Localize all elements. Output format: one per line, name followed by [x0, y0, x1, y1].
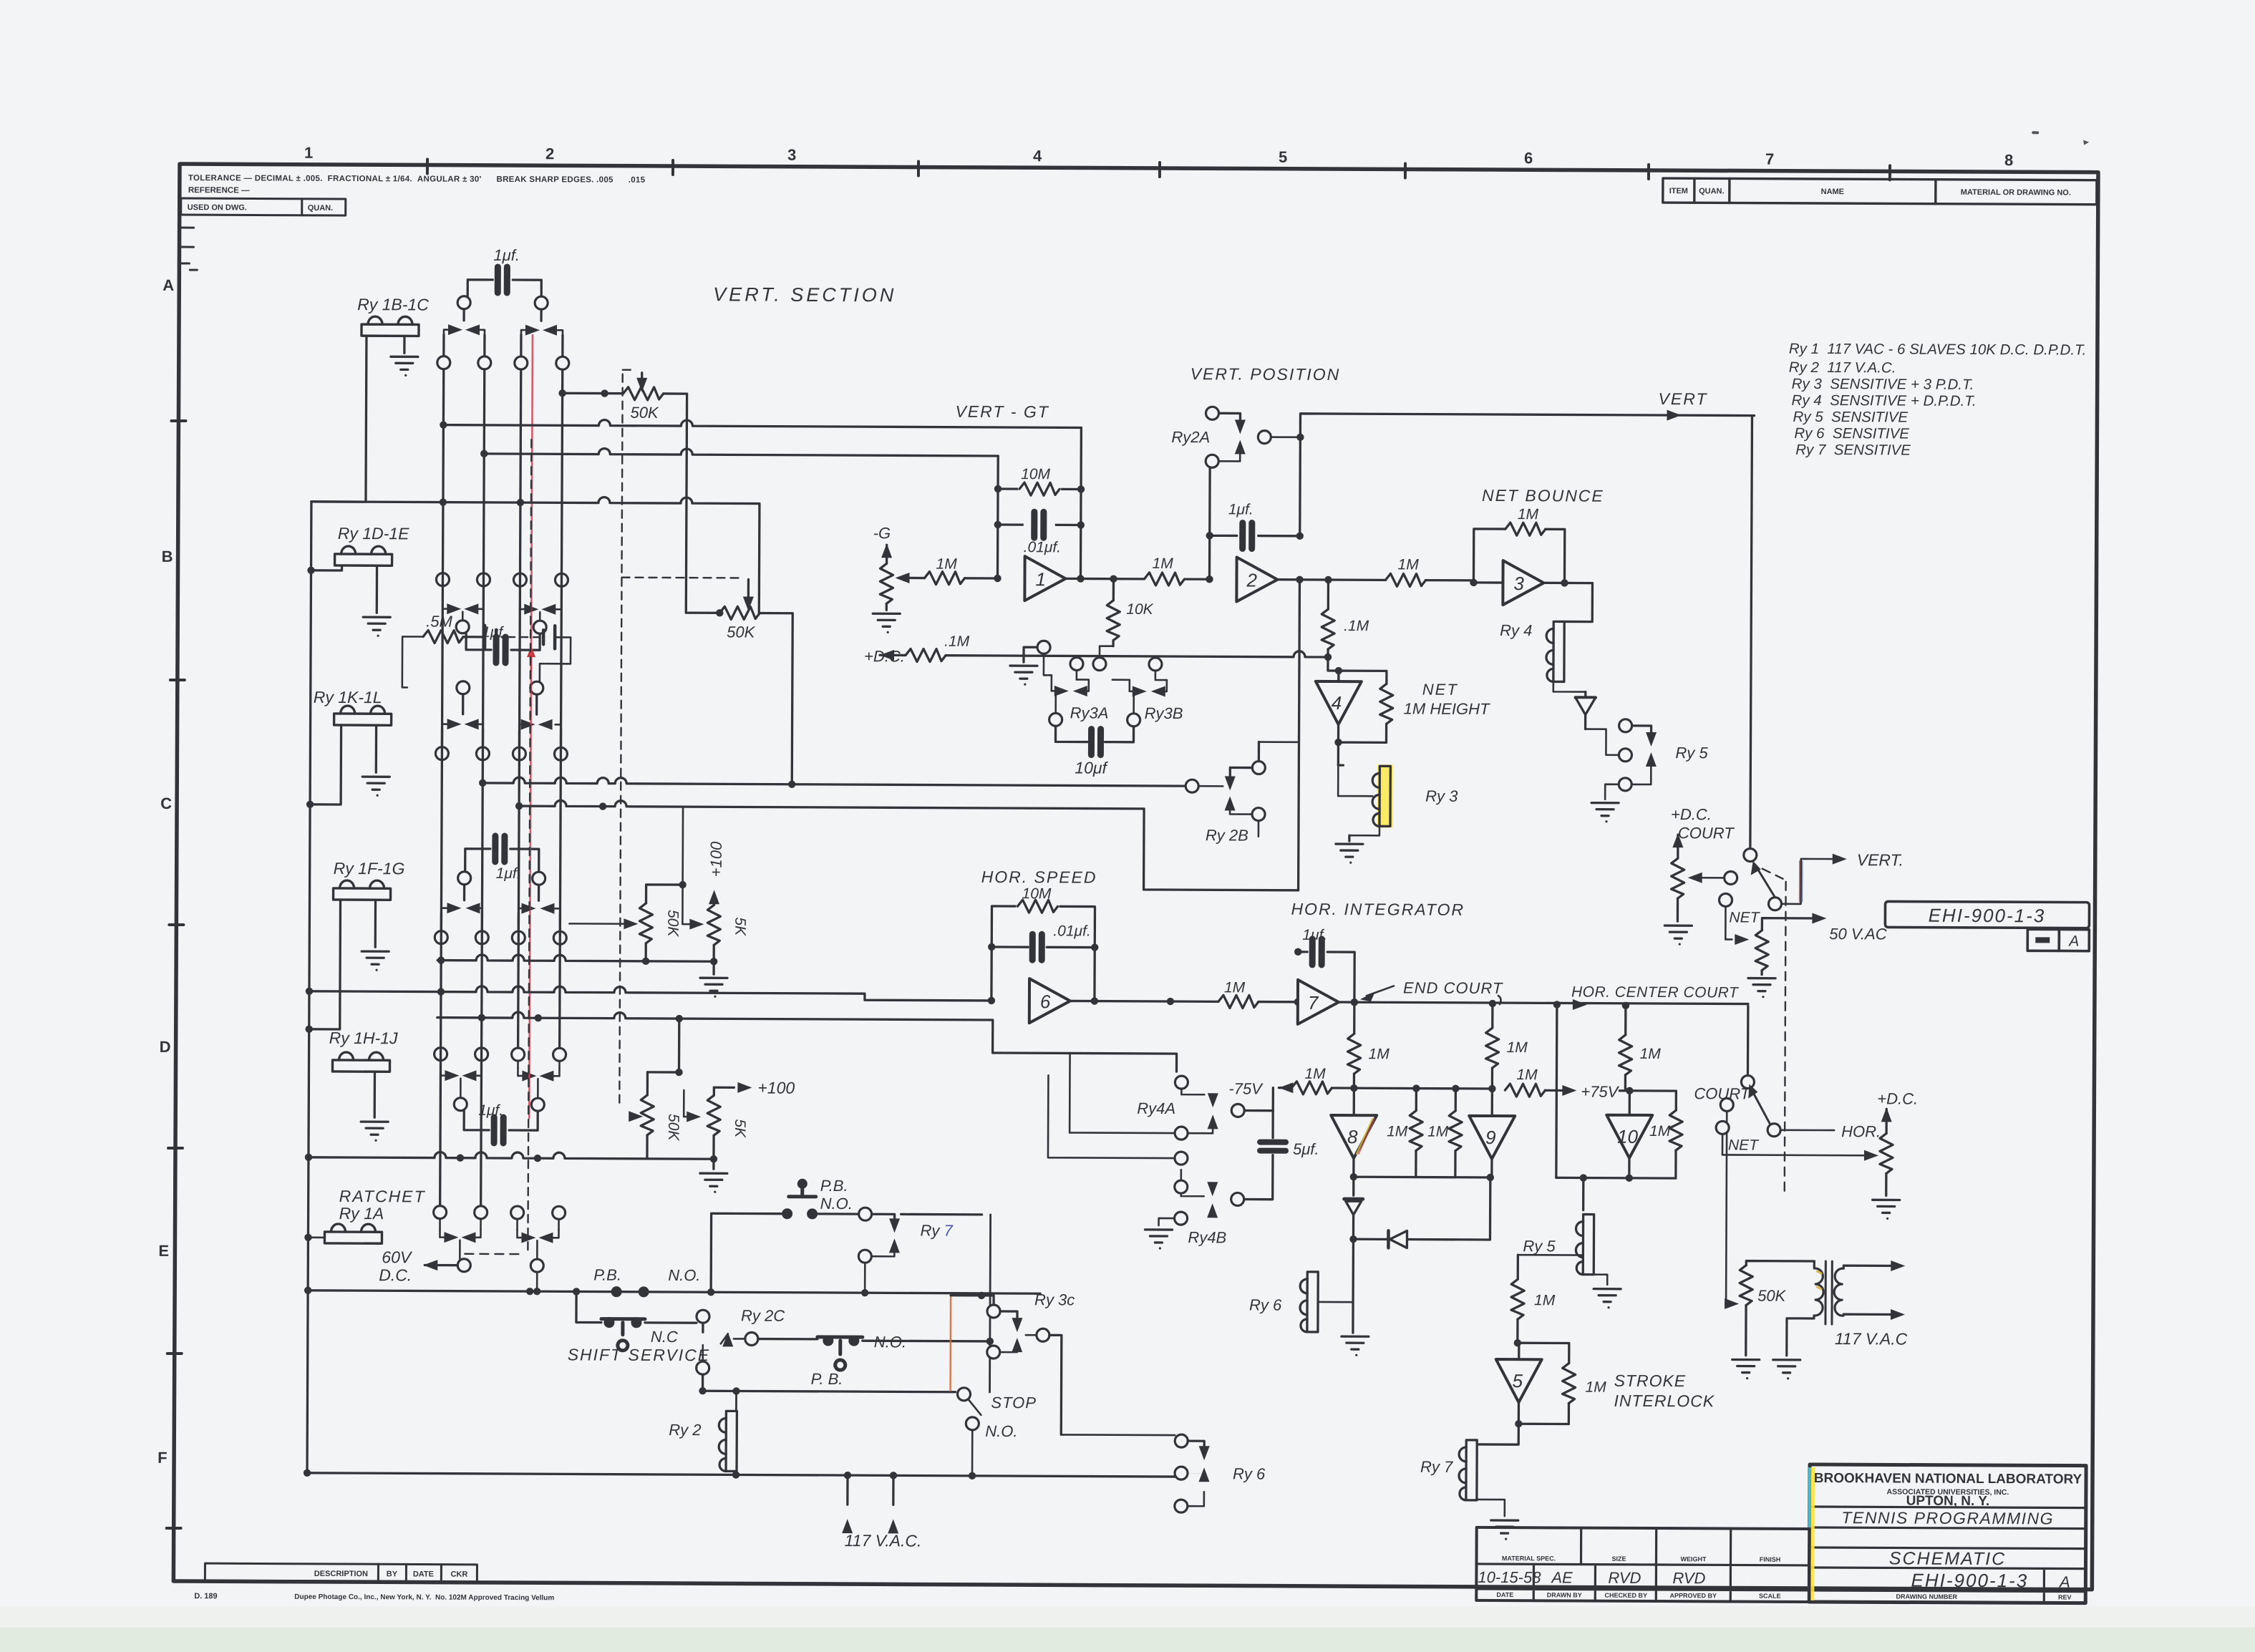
END COURT annotation — [1360, 978, 1503, 1004]
wire bus y1802 — [304, 1287, 1040, 1298]
svg-text:Ry4A: Ry4A — [1137, 1099, 1175, 1117]
svg-text:117 V.A.C: 117 V.A.C — [1835, 1329, 1908, 1348]
contact Ry1A upper terminals — [434, 1206, 566, 1220]
svg-text:10M: 10M — [1021, 466, 1050, 482]
svg-text:F: F — [157, 1449, 168, 1467]
+D.C. label (hor pot) — [1877, 1089, 1918, 1133]
svg-text:P.B.: P.B. — [593, 1266, 621, 1284]
resistor 1M (-75V) — [1291, 1066, 1495, 1095]
potentiometer 50K (vert section upper) — [623, 387, 687, 422]
junction y1420 — [478, 1014, 542, 1022]
+100 arrow (pair 2) — [714, 1078, 795, 1097]
svg-text:C: C — [160, 795, 172, 812]
contact Ry1D — [442, 586, 483, 621]
svg-text:Ry 2: Ry 2 — [669, 1421, 701, 1439]
potentiometer 5K (pair 2) — [684, 1087, 748, 1159]
VERT arrow annotation — [1658, 389, 1707, 421]
resistor 10M (op1 feedback) — [1018, 466, 1061, 495]
switch blade (VERT select) — [1750, 850, 1904, 911]
svg-text:10-15-58: 10-15-58 — [1478, 1568, 1541, 1586]
switch STOP — [957, 1388, 1037, 1480]
red pencil trace (stop row) — [949, 1296, 951, 1391]
svg-text:.5M: .5M — [426, 613, 452, 631]
junction y632/colB — [480, 450, 488, 457]
resistor 1M (op3 feedback) — [1473, 523, 1564, 583]
svg-text:5K: 5K — [732, 917, 748, 936]
svg-text:1M: 1M — [1649, 1123, 1671, 1140]
svg-text:Ry 3: Ry 3 — [1425, 787, 1458, 805]
svg-text:Ry 1K-1L: Ry 1K-1L — [314, 688, 382, 706]
potentiometer 5K (pair 1) — [682, 807, 749, 961]
svg-text:N.O.: N.O. — [668, 1266, 700, 1284]
svg-text:UPTON, N. Y.: UPTON, N. Y. — [1906, 1494, 1990, 1510]
junction y700 — [440, 498, 524, 506]
wire bus y1384 — [309, 986, 991, 1001]
junction bus/Ry1D-1E — [307, 566, 341, 574]
terminal mid (Ry4A/B) — [1048, 1075, 1188, 1165]
wire PB NO row — [707, 1213, 859, 1296]
svg-text:Ry 6 SENSITIVE: Ry 6 SENSITIVE — [1794, 425, 1909, 442]
relay coil Ry1K-1L — [334, 706, 392, 797]
svg-text:8: 8 — [2004, 151, 2013, 169]
svg-text:SIZE: SIZE — [1611, 1555, 1626, 1563]
dashed gang link (vert switch) — [1761, 869, 1786, 1195]
red pencil trace column — [529, 335, 533, 1118]
svg-text:SCHEMATIC: SCHEMATIC — [1889, 1548, 2006, 1569]
svg-text:1M: 1M — [1516, 1066, 1538, 1083]
switch COURT second terminal — [1720, 1098, 1733, 1303]
contact Ry3A — [1044, 653, 1109, 721]
capacitor 1uf (Ry1D-1E) — [456, 621, 546, 664]
svg-text:B: B — [162, 548, 173, 565]
svg-text:BROOKHAVEN NATIONAL LABORATORY: BROOKHAVEN NATIONAL LABORATORY — [1814, 1471, 2082, 1487]
svg-text:1M HEIGHT: 1M HEIGHT — [1404, 699, 1490, 718]
junction y1616 — [305, 1154, 541, 1162]
svg-text:VERT. SECTION: VERT. SECTION — [713, 283, 896, 306]
svg-text:117 V.A.C.: 117 V.A.C. — [845, 1531, 922, 1550]
svg-text:VERT. POSITION: VERT. POSITION — [1190, 364, 1341, 384]
svg-text:Dupee Photage Co., Inc., New Y: Dupee Photage Co., Inc., New York, N. Y.… — [294, 1593, 554, 1603]
svg-text:50K: 50K — [1757, 1287, 1787, 1305]
svg-text:1μf.: 1μf. — [496, 865, 521, 882]
svg-text:1M: 1M — [1427, 1124, 1449, 1140]
diode (Ry4 to Ry5) — [1576, 692, 1596, 729]
svg-text:.1M: .1M — [1344, 618, 1369, 634]
switch blade (HOR select) — [1748, 1084, 1881, 1141]
op6 feedback box rails — [988, 906, 1099, 1005]
dashed gang link to second 50K — [621, 578, 754, 611]
junction bus/Ry1K-1L — [306, 725, 341, 808]
svg-text:Ry3A: Ry3A — [1070, 704, 1109, 721]
relay coil Ry4 (slave) — [1500, 621, 1586, 692]
op-amp 7 — [1298, 980, 1339, 1024]
wire 10K into contact — [1100, 646, 1113, 658]
wire bus y1092 — [479, 777, 1185, 790]
labels NET / 1M HEIGHT — [1404, 680, 1491, 718]
svg-text:BY: BY — [387, 1570, 398, 1578]
relay coil Ry1A (ratchet) — [308, 1224, 382, 1243]
used-on-dwg box — [181, 198, 346, 215]
capacitor 10uf — [1055, 726, 1133, 777]
svg-text:1M: 1M — [1369, 1046, 1390, 1062]
resistor 1M (op5 parallel) — [1517, 1343, 1606, 1424]
svg-text:1: 1 — [1035, 568, 1046, 590]
svg-text:1M: 1M — [936, 556, 958, 573]
svg-text:3: 3 — [1513, 573, 1524, 594]
contact Ry1H-1J upper terminals — [435, 1048, 566, 1061]
svg-text:Ry 4: Ry 4 — [1500, 621, 1532, 639]
svg-text:5K: 5K — [732, 1119, 748, 1138]
svg-text:N.O.: N.O. — [820, 1195, 853, 1213]
wire bus y700 — [311, 496, 760, 613]
svg-text:Ry 2B: Ry 2B — [1206, 826, 1248, 844]
contact Ry1F-1G upper terminals — [458, 872, 545, 885]
svg-text:VERT: VERT — [1659, 389, 1708, 408]
potentiometer at op1 input — [880, 563, 909, 610]
potentiometer +DC COURT — [1671, 833, 1737, 921]
wire op8 bottom rail — [1350, 1158, 1495, 1196]
wire Ry5 coil to stroke resistor — [1518, 1254, 1583, 1256]
diode (op9 cross) — [1353, 1177, 1490, 1248]
wire pots pair1 bottom — [437, 955, 717, 966]
svg-text:+D.C.: +D.C. — [1671, 805, 1712, 823]
svg-text:P. B.: P. B. — [811, 1370, 843, 1388]
svg-text:50K: 50K — [727, 623, 756, 641]
svg-text:INTERLOCK: INTERLOCK — [1614, 1391, 1715, 1411]
wire bus y547 to 50K — [558, 389, 623, 397]
svg-text:5: 5 — [1513, 1370, 1523, 1391]
wire Ry7 contact to bus — [861, 1289, 868, 1296]
title block left extension strip — [1476, 1527, 1809, 1602]
wire Ry2C lower to stop row — [699, 1374, 955, 1396]
contact Ry1K — [442, 694, 482, 747]
contact Ry1H — [440, 1061, 481, 1099]
+100 arrow (pair 1) — [707, 841, 724, 905]
wire op4 bottom — [1334, 724, 1386, 747]
svg-text:1M: 1M — [1387, 1123, 1408, 1140]
resistor 1M (op10 parallel) — [1629, 1091, 1683, 1178]
svg-text:.1M: .1M — [944, 633, 970, 650]
wire op2 output — [1277, 575, 1385, 583]
resistor 1M (op4 parallel) — [1334, 667, 1393, 743]
contact Ry1B — [444, 309, 485, 363]
svg-text:.01μf.: .01μf. — [1053, 923, 1090, 939]
svg-text:MATERIAL SPEC.: MATERIAL SPEC. — [1502, 1555, 1556, 1562]
wire bus y1124 — [515, 800, 1299, 890]
svg-text:END COURT: END COURT — [1403, 978, 1503, 997]
svg-text:60V: 60V — [382, 1248, 413, 1266]
svg-text:2: 2 — [545, 145, 554, 162]
resistor 1M (op6-op7) — [1218, 979, 1301, 1009]
ground below Ry7 — [1491, 1520, 1518, 1540]
wire bus y1420 — [437, 1012, 1176, 1072]
contact Ry5 terminals — [1619, 719, 1631, 791]
contact Ry1K-1L lower terminals — [435, 747, 567, 761]
svg-text:1M: 1M — [1586, 1379, 1607, 1396]
bus stub to Ry1B-1C coil — [311, 336, 367, 502]
resistor 1M (center court load 1) — [1485, 1004, 1528, 1089]
sheet border frame — [173, 164, 2098, 1590]
wire Ry3c leads — [950, 1292, 1062, 1435]
-75V label with arrow — [1228, 1079, 1293, 1097]
resistor .1M (to +DC) — [906, 633, 1332, 664]
svg-text:Ry 6: Ry 6 — [1249, 1296, 1282, 1314]
svg-text:7: 7 — [1765, 150, 1774, 168]
contact Ry1F — [441, 885, 482, 931]
contact Ry3c — [987, 1291, 1075, 1359]
contact Ry7 (control) — [858, 1208, 982, 1293]
contact Ry5 — [1585, 726, 1708, 785]
svg-text:RVD: RVD — [1672, 1569, 1705, 1587]
svg-text:CKR: CKR — [450, 1570, 467, 1579]
svg-text:10: 10 — [1617, 1126, 1639, 1147]
label +D.C. COURT — [1671, 805, 1735, 842]
ground below NET pot — [1748, 978, 1775, 999]
svg-text:-75V: -75V — [1228, 1079, 1264, 1097]
svg-text:Ry 4 SENSITIVE + D.P.D.T.: Ry 4 SENSITIVE + D.P.D.T. — [1792, 392, 1977, 409]
op-amp 4 — [1316, 657, 1362, 724]
push button P.B. N.O. (Ry2C) — [811, 1333, 907, 1389]
dashed gang link left — [528, 439, 531, 1250]
top border zone ticks — [427, 160, 1890, 180]
wire op3 output to Ry4 — [1566, 583, 1592, 621]
relay coil Ry1F-1G — [333, 880, 391, 971]
relay coil Ry3 (slave) — [1338, 742, 1459, 836]
resistor 1M (stroke) — [1511, 1255, 1556, 1346]
svg-text:Ry 1B-1C: Ry 1B-1C — [357, 295, 429, 314]
ground below 5K pair1 — [700, 961, 727, 998]
ground below HOR pot — [1873, 1200, 1900, 1220]
relay list note — [1788, 341, 2086, 460]
terminal Ry1A lower — [530, 1259, 543, 1291]
svg-text:DESCRIPTION: DESCRIPTION — [314, 1570, 368, 1578]
contact Ry1J — [518, 1061, 559, 1099]
ground below +DC COURT pot — [1664, 925, 1692, 946]
NET terminal lower — [1716, 1121, 1878, 1160]
svg-text:RATCHET: RATCHET — [339, 1187, 426, 1206]
op-amp 3 — [1473, 560, 1592, 606]
switch VERT/50VAC common terminal — [1744, 416, 1759, 862]
svg-text:Ry 3c: Ry 3c — [1034, 1291, 1075, 1308]
svg-text:A: A — [2058, 1573, 2070, 1590]
svg-text:Ry 5 SENSITIVE: Ry 5 SENSITIVE — [1793, 409, 1908, 426]
svg-text:D: D — [160, 1038, 171, 1056]
wire bus y1616 — [309, 1152, 714, 1159]
capacitor .01uf (op6 feedback) — [1032, 923, 1091, 960]
potentiometer 50K (pair 1) — [569, 880, 687, 961]
op-amp 5 — [1495, 1343, 1541, 1402]
capacitor 5uf — [1244, 1111, 1319, 1200]
wire Ry2C to PB row — [758, 1214, 994, 1392]
svg-text:HOR.: HOR. — [1841, 1122, 1881, 1140]
relay coil Ry5 (slave) — [1576, 1174, 1608, 1284]
svg-text:Ry 1F-1G: Ry 1F-1G — [334, 859, 405, 878]
wire center court drop — [1556, 1004, 1557, 1177]
svg-text:DATE: DATE — [1496, 1591, 1513, 1598]
contact Ry1A-2 — [517, 1219, 558, 1259]
diode (op8 output) — [1344, 1199, 1362, 1243]
svg-text:Ry4B: Ry4B — [1188, 1228, 1226, 1246]
svg-text:1M: 1M — [1398, 556, 1420, 573]
op-amp 9 — [1469, 1089, 1515, 1159]
junction bus/Ry1F-1G — [306, 900, 341, 1033]
resistor 1M (op8 parallel) — [1387, 1088, 1423, 1177]
mechanical link dashed (Ry1A) — [465, 1253, 524, 1255]
svg-text:EHI-900-1-3: EHI-900-1-3 — [1911, 1570, 2029, 1592]
svg-text:Ry3B: Ry3B — [1145, 704, 1183, 722]
relay coil Ry7 (slave) — [1420, 1424, 1519, 1517]
svg-text:1μf.: 1μf. — [1228, 501, 1253, 518]
relay coil Ry1H-1J — [332, 1052, 390, 1142]
capacitor 1uf (Ry1H-1J) — [454, 1098, 544, 1144]
contact Ry1G — [518, 885, 560, 931]
ground below Ry5 coil — [1594, 1289, 1621, 1309]
contact Ry1D-1E upper terminals — [436, 573, 568, 587]
wire op1 output — [1065, 575, 1144, 583]
svg-text:10M: 10M — [1022, 885, 1052, 902]
svg-text:1M: 1M — [1640, 1046, 1662, 1062]
svg-text:RVD: RVD — [1608, 1569, 1641, 1587]
svg-text:Ry 5: Ry 5 — [1675, 744, 1708, 762]
terminals below Ry3A/3B — [1049, 713, 1140, 727]
capacitor 1uf (Ry1F-1G) — [465, 836, 539, 882]
svg-text:1: 1 — [304, 144, 313, 162]
resistor 1M (op2-op3) — [1385, 556, 1477, 587]
contact Ry1K-1L upper terminals — [457, 681, 543, 695]
svg-text:HOR. INTEGRATOR: HOR. INTEGRATOR — [1291, 900, 1465, 919]
svg-text:50K: 50K — [665, 1114, 682, 1141]
svg-text:E: E — [158, 1242, 169, 1260]
svg-text:COURT: COURT — [1678, 824, 1735, 842]
shift service N.C. contact — [601, 1317, 678, 1351]
resistor 1M (op1-op2) — [1144, 555, 1213, 586]
dashed gang link upper — [619, 370, 647, 1104]
wire column D — [560, 369, 563, 1048]
resistor 10K to ground — [1107, 579, 1154, 646]
resistor 1M (op1 input) — [909, 555, 997, 585]
potentiometer HOR +DC — [1880, 1133, 1893, 1195]
60V D.C. label with arrow — [379, 1248, 470, 1285]
ground below transformer — [1773, 1360, 1800, 1380]
svg-text:DRAWN BY: DRAWN BY — [1547, 1591, 1582, 1598]
contact Ry1A-1 — [440, 1219, 480, 1259]
contact Ry4A — [1137, 1076, 1273, 1140]
svg-text:REFERENCE —: REFERENCE — — [188, 186, 250, 195]
svg-text:Ry 1H-1J: Ry 1H-1J — [329, 1029, 398, 1047]
svg-text:+100: +100 — [757, 1079, 795, 1097]
svg-text:FINISH: FINISH — [1760, 1556, 1781, 1563]
svg-text:.01μf.: .01μf. — [1024, 539, 1061, 555]
svg-text:A: A — [2067, 933, 2079, 950]
NET terminal upper — [1719, 893, 1760, 945]
svg-text:5μf.: 5μf. — [1293, 1140, 1319, 1158]
potentiometer 50K (second) — [685, 606, 792, 784]
svg-text:P.B.: P.B. — [820, 1177, 848, 1195]
resistor 1M (center court load 2) — [1619, 1006, 1661, 1091]
item/name header strip — [1663, 178, 2097, 205]
svg-text:-G: -G — [873, 524, 891, 542]
svg-text:6: 6 — [1524, 149, 1533, 167]
op-amp 10 — [1606, 1091, 1653, 1178]
svg-text:TENNIS PROGRAMMING: TENNIS PROGRAMMING — [1841, 1508, 2054, 1527]
capacitor 1uf (op7 feedback) — [1294, 927, 1359, 1006]
wire op2 output down rail — [1299, 580, 1300, 890]
potentiometer NET (upper) — [1755, 913, 1887, 975]
contact Ry4B — [1158, 1180, 1266, 1247]
op-amp 8 — [1331, 1088, 1377, 1158]
svg-text:SCALE: SCALE — [1759, 1593, 1781, 1600]
svg-text:N.O.: N.O. — [985, 1422, 1017, 1440]
resistor 1M (op9 parallel) — [1427, 1089, 1463, 1177]
svg-text:1M: 1M — [1534, 1292, 1556, 1308]
svg-text:4: 4 — [1033, 147, 1042, 165]
contact Ry1E — [520, 586, 561, 621]
transformer T1 — [1787, 1260, 1906, 1356]
pen speck marks — [2032, 131, 2089, 145]
contact Ry3B — [1112, 658, 1183, 722]
svg-text:Ry 2C: Ry 2C — [741, 1306, 785, 1324]
scanner bed green strip at bottom — [0, 1628, 2255, 1652]
svg-text:DATE: DATE — [413, 1570, 434, 1578]
svg-text:Ry 1 117 VAC - 6 SLAVES 10K D: Ry 1 117 VAC - 6 SLAVES 10K D.C. D.P.D.T… — [1789, 341, 2087, 359]
relay contact Ry2A — [1171, 407, 1300, 468]
junction y1384 — [306, 988, 445, 996]
svg-text:DRAWING NUMBER: DRAWING NUMBER — [1896, 1593, 1958, 1600]
wire -75V node up — [1272, 1088, 1274, 1111]
ground + contact cluster Ry3A/3B ground — [1010, 641, 1050, 686]
svg-text:AE: AE — [1550, 1568, 1573, 1586]
resistor .5M with delay caps (Ry1K-1L) — [402, 612, 571, 688]
EHI-900-1-3 reference box mid right — [1885, 901, 2089, 951]
svg-text:VERT.: VERT. — [1857, 850, 1904, 869]
contact Ry1L — [519, 694, 561, 747]
potentiometer 50K (pair 2) — [629, 1072, 682, 1159]
label P.B. N.O. (shift) — [593, 1266, 700, 1298]
wire column A — [440, 369, 444, 1206]
svg-text:Ry 7: Ry 7 — [1420, 1458, 1453, 1476]
wire Ry2B top to op2 rail — [1259, 741, 1299, 743]
contact Ry2C — [697, 1306, 785, 1375]
svg-text:N.C: N.C — [651, 1328, 678, 1346]
contact Ry1B-1C lower terminals — [437, 356, 569, 370]
+75V label with arrow — [1562, 1082, 1633, 1100]
svg-text:NET BOUNCE: NET BOUNCE — [1482, 486, 1604, 505]
svg-text:Ry 1D-1E: Ry 1D-1E — [338, 524, 409, 543]
svg-text:1M: 1M — [1304, 1066, 1326, 1082]
ground below Ry6 — [1342, 1336, 1369, 1356]
svg-text:D. 189: D. 189 — [194, 1592, 217, 1600]
yellow edge highlight on title block — [1810, 1467, 1815, 1600]
op1 feedback box rails — [994, 427, 1085, 583]
svg-text:Ry 6: Ry 6 — [1233, 1464, 1266, 1482]
svg-text:A: A — [163, 276, 174, 294]
svg-text:4: 4 — [1332, 692, 1342, 714]
wire 117VAC drops — [842, 1472, 898, 1534]
svg-text:NAME: NAME — [1821, 188, 1844, 196]
wire Ry4A common from op6 — [1070, 1053, 1175, 1133]
svg-text:10μf: 10μf — [1075, 758, 1108, 777]
relay coil Ry1B-1C — [362, 316, 419, 376]
svg-text:+100: +100 — [707, 841, 725, 877]
ground below 50K output pot — [1732, 1359, 1760, 1379]
red mark arrow (Ry1K-1L) — [527, 646, 535, 671]
wire pot pair2 top — [647, 1015, 683, 1077]
svg-text:2: 2 — [1246, 570, 1257, 591]
left border small scale ticks — [179, 228, 197, 270]
switch COURT terminal — [1694, 1006, 1755, 1102]
svg-text:HOR. CENTER COURT: HOR. CENTER COURT — [1571, 983, 1740, 1001]
svg-text:CHECKED BY: CHECKED BY — [1605, 1592, 1648, 1599]
